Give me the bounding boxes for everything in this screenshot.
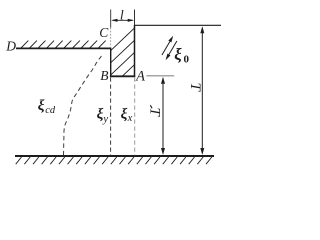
dimension line T-prime (x=163) with arrows [162, 79, 164, 153]
dashed vertical line below B (xi_y boundary) [110, 78, 112, 156]
prime tick of T-prime [150, 105, 152, 108]
svg-text:B: B [100, 68, 108, 83]
svg-text:A: A [135, 69, 145, 85]
svg-text:C: C [99, 25, 109, 40]
svg-text:T: T [147, 108, 163, 118]
svg-text:ξ: ξ [38, 98, 45, 114]
shear stress arrows xi_0 [162, 42, 170, 56]
hatching above surface D-C [21, 41, 106, 48]
svg-text:y: y [102, 114, 108, 125]
bottom ground line [15, 155, 214, 157]
wall C-B (left edge of strip) [110, 48, 112, 76]
svg-text:D: D [5, 38, 16, 53]
extension line above right edge [134, 10, 136, 26]
gray reference tick at A level [146, 75, 174, 77]
surface line D-C (upper-left ground) [16, 47, 111, 49]
dimension l: line and arrows [113, 19, 133, 21]
bottom edge of strip B-A [110, 75, 135, 77]
light dashed vertical line below A (xi_x boundary) [134, 78, 136, 156]
svg-text:l: l [120, 9, 124, 24]
svg-text:ξ: ξ [121, 106, 128, 122]
svg-text:cd: cd [45, 105, 56, 116]
svg-text:T: T [187, 83, 203, 93]
upper-right surface line from A-step top [134, 24, 221, 26]
svg-text:x: x [127, 113, 133, 124]
right edge of strip (below A corner) [134, 25, 136, 76]
svg-text:0: 0 [184, 54, 190, 66]
dashed curve xi_cd from C to bottom [64, 56, 102, 156]
hatched strip (slab between B-C wall and A edge) [111, 28, 134, 76]
svg-text:ξ: ξ [174, 45, 182, 64]
hatching below bottom ground line [16, 157, 212, 164]
dimension line T (x=202.3) with arrows [201, 29, 203, 153]
extension line above C [110, 10, 112, 28]
